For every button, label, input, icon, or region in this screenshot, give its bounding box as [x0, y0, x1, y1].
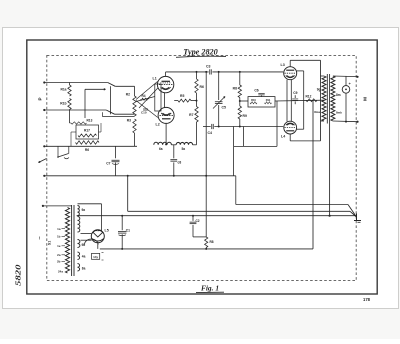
svg-text:C9: C9: [293, 91, 297, 95]
svg-text:C10: C10: [141, 111, 147, 115]
svg-text:5820: 5820: [15, 264, 23, 286]
svg-text:R13: R13: [87, 119, 93, 123]
svg-text:4a: 4a: [82, 255, 86, 259]
svg-text:Fig. 1: Fig. 1: [201, 284, 219, 293]
svg-text:24a: 24a: [58, 270, 63, 274]
svg-text:9a: 9a: [82, 208, 86, 212]
svg-text:1b: 1b: [57, 235, 61, 239]
svg-text:C6: C6: [254, 89, 258, 93]
svg-text:R8: R8: [233, 87, 237, 91]
svg-text:2a: 2a: [57, 253, 61, 257]
svg-text:8a: 8a: [82, 267, 86, 271]
svg-text:L2: L2: [156, 123, 160, 127]
svg-text:R1b: R1b: [60, 102, 66, 106]
svg-text:L4: L4: [281, 135, 285, 139]
svg-text:C2: C2: [196, 219, 200, 223]
svg-text:8ma: 8ma: [314, 110, 320, 114]
svg-text:C1: C1: [126, 229, 130, 233]
svg-text:R12: R12: [306, 95, 312, 99]
svg-text:178: 178: [363, 297, 371, 302]
svg-text:R4: R4: [142, 94, 146, 98]
svg-text:1a: 1a: [57, 227, 61, 231]
svg-text:R6: R6: [200, 85, 204, 89]
svg-text:5a: 5a: [182, 147, 186, 151]
svg-text:R1a: R1a: [60, 88, 66, 92]
svg-text:14y: 14y: [93, 255, 98, 259]
svg-text:~: ~: [38, 236, 44, 240]
svg-text:R10: R10: [251, 98, 256, 102]
svg-text:C7: C7: [106, 162, 110, 166]
svg-text:R5: R5: [180, 94, 184, 98]
svg-text:S1: S1: [48, 241, 52, 245]
svg-text:C5: C5: [222, 106, 227, 110]
svg-text:2b: 2b: [57, 260, 61, 264]
svg-text:9g: 9g: [317, 88, 321, 92]
svg-text:6a: 6a: [159, 147, 163, 151]
svg-text:8m: 8m: [336, 93, 341, 97]
svg-text:1e: 1e: [57, 244, 61, 248]
svg-text:M: M: [363, 97, 368, 101]
svg-text:R6: R6: [85, 148, 89, 152]
svg-text:R11: R11: [266, 98, 271, 102]
svg-text:C3: C3: [206, 65, 211, 69]
svg-text:R7: R7: [189, 113, 193, 117]
svg-text:C4: C4: [208, 131, 213, 135]
svg-text:R17: R17: [84, 129, 90, 133]
svg-text:L1: L1: [153, 77, 157, 81]
svg-text:R9: R9: [243, 114, 247, 118]
svg-text:c8: c8: [178, 161, 182, 165]
svg-text:R3: R3: [127, 119, 131, 123]
svg-text:8mb: 8mb: [336, 111, 342, 115]
svg-text:P: P: [38, 97, 43, 100]
svg-text:R8: R8: [210, 240, 214, 244]
svg-text:R2: R2: [126, 92, 130, 96]
svg-text:L5: L5: [105, 229, 109, 233]
svg-text:Type 2820: Type 2820: [183, 47, 217, 56]
svg-text:L3: L3: [281, 63, 285, 67]
